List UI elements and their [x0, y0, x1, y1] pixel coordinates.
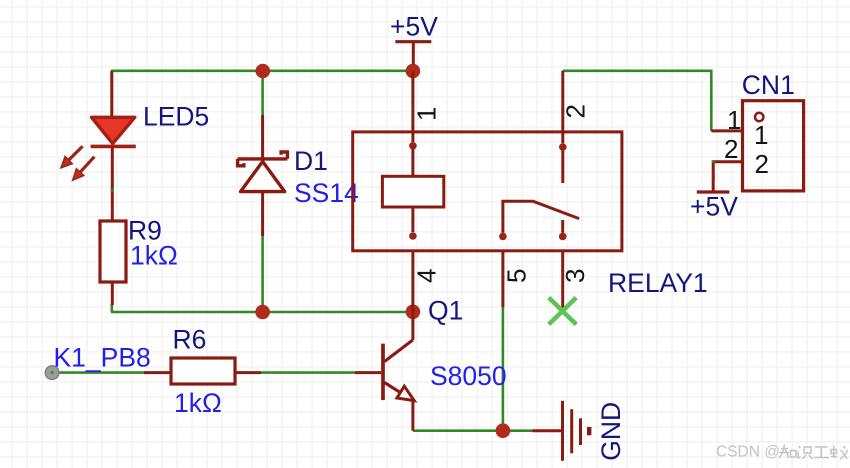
- label R9: [128, 216, 162, 246]
- svg-text:1: 1: [412, 107, 442, 121]
- power +5V top symbol: [395, 42, 431, 71]
- wire D1 bottom: [261, 234, 264, 312]
- svg-text:K1_PB8: K1_PB8: [54, 343, 151, 373]
- svg-text:1: 1: [727, 105, 741, 135]
- watermark hanzi 工: [814, 447, 829, 458]
- wire top rail left: [111, 70, 413, 73]
- svg-text:RELAY1: RELAY1: [608, 268, 708, 298]
- svg-text:R6: R6: [173, 325, 207, 355]
- watermark hanzi 识: [798, 446, 813, 459]
- svg-text:3: 3: [560, 269, 590, 283]
- port K1_PB8: [45, 366, 59, 380]
- relay pin 4: [411, 251, 414, 312]
- svg-text:5: 5: [502, 269, 532, 283]
- label S8050: [430, 361, 507, 391]
- wire R6 to Q1 base: [261, 371, 355, 374]
- svg-text:1kΩ: 1kΩ: [174, 388, 222, 418]
- svg-text:LED5: LED5: [143, 102, 209, 132]
- pin number 2 CN1 outside: [724, 134, 738, 164]
- relay switch lever: [499, 201, 579, 240]
- resistor R9: [100, 221, 126, 305]
- svg-text:1kΩ: 1kΩ: [130, 241, 178, 271]
- pin number 5 relay: [502, 269, 532, 283]
- pin end dot LED/R9: [111, 188, 115, 192]
- net label +5V top: [390, 12, 438, 42]
- watermark hanzi 蚁: [831, 446, 848, 460]
- label 1kOhm R6: [174, 388, 222, 418]
- svg-text:+5V: +5V: [390, 12, 438, 42]
- wire emitter to GND: [413, 429, 533, 432]
- pin number 3 relay: [560, 269, 590, 283]
- svg-text:D1: D1: [294, 146, 328, 176]
- wire K1_PB8 to R6: [57, 371, 144, 374]
- label CN1: [742, 70, 795, 100]
- ground symbol GND: [533, 401, 590, 461]
- svg-text:CSDN @: CSDN @: [716, 444, 780, 461]
- pin number 4 relay: [412, 269, 442, 283]
- power +5V bottom symbol: [697, 190, 730, 193]
- pin name 1 CN1 inside: [754, 120, 768, 150]
- label RELAY1: [608, 268, 708, 298]
- svg-text:1: 1: [754, 120, 768, 150]
- svg-text:+5V: +5V: [690, 192, 738, 222]
- junction at Q1 collector: [406, 305, 421, 320]
- pin name 2 CN1 inside: [755, 149, 769, 179]
- label SS14: [294, 178, 359, 208]
- relay pin 1: [409, 71, 417, 177]
- relay pin 2: [559, 71, 567, 183]
- svg-text:2: 2: [724, 134, 738, 164]
- relay pin 5: [501, 251, 504, 307]
- label LED5: [143, 102, 209, 132]
- svg-text:SS14: SS14: [294, 178, 359, 208]
- junction at GND wire: [496, 423, 511, 438]
- label K1_PB8: [54, 343, 151, 373]
- wire relay pin5 down: [502, 306, 505, 431]
- LED D5 symbol: [61, 71, 136, 221]
- svg-text:2: 2: [561, 104, 591, 118]
- pin number 1 CN1 outside: [727, 105, 741, 135]
- svg-text:4: 4: [412, 269, 442, 283]
- net label +5V bottom: [690, 192, 738, 222]
- pin number 1 relay: [412, 107, 442, 121]
- junction middle at D1: [255, 305, 270, 320]
- relay RELAY1 body: [353, 132, 622, 251]
- connector CN1: [711, 101, 803, 192]
- wire top rail right: [563, 71, 712, 131]
- relay coil: [382, 176, 443, 240]
- net label GND: [596, 402, 626, 461]
- diode D1 SS14 schottky: [238, 115, 288, 236]
- wire middle rail: [111, 311, 413, 314]
- pin number 2 relay: [561, 104, 591, 118]
- label R6: [173, 325, 207, 355]
- watermark hanzi 知: [779, 445, 796, 459]
- wire LED branch bottom corner: [111, 304, 114, 312]
- relay pin 3: [561, 251, 564, 311]
- label 1kOhm R9: [130, 241, 178, 271]
- watermark CSDN: [716, 444, 780, 461]
- no-connect X on pin 3: [549, 298, 576, 325]
- svg-text:S8050: S8050: [430, 361, 507, 391]
- svg-text:2: 2: [755, 149, 769, 179]
- junction top at D1: [255, 64, 270, 79]
- transistor Q1 S8050: [355, 312, 414, 431]
- svg-text:GND: GND: [596, 402, 626, 461]
- label D1: [294, 146, 328, 176]
- svg-text:CN1: CN1: [742, 70, 795, 100]
- junction top at relay pin1: [406, 64, 421, 79]
- wire D1 top: [261, 71, 264, 117]
- svg-text:Q1: Q1: [428, 296, 463, 326]
- label Q1: [428, 296, 463, 326]
- resistor R6: [144, 358, 261, 384]
